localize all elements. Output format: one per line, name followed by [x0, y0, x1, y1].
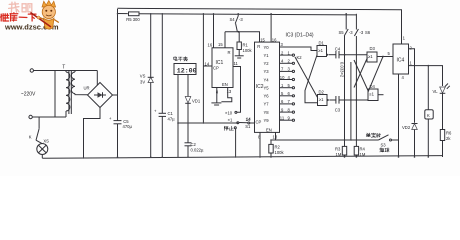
- svg-text:Y4: Y4: [264, 77, 270, 82]
- gate D3: [367, 46, 377, 62]
- svg-text:16: 16: [208, 43, 213, 48]
- svg-text:Y5: Y5: [264, 86, 270, 91]
- resistor R2: [269, 140, 285, 157]
- svg-text:UR: UR: [84, 86, 90, 91]
- wire secondary top to bridge: [74, 71, 76, 73]
- svg-text:15: 15: [218, 42, 223, 47]
- svg-text:×10: ×10: [225, 110, 233, 115]
- svg-text:Y7: Y7: [264, 102, 270, 107]
- switch S6: [354, 14, 370, 147]
- wire C3 to D4: [339, 99, 368, 101]
- resistor R4: [354, 146, 366, 157]
- svg-text:12:00: 12:00: [177, 67, 197, 74]
- wire bridge right vertex: [113, 94, 118, 96]
- gate D1: [317, 40, 329, 56]
- svg-text:R3: R3: [335, 147, 341, 152]
- transformer T: [62, 65, 75, 115]
- svg-text:11: 11: [234, 61, 239, 66]
- svg-text:×1: ×1: [228, 117, 233, 122]
- svg-text:Y6: Y6: [264, 94, 270, 99]
- svg-text:≥1: ≥1: [368, 54, 373, 59]
- selector S1 contacts: [224, 110, 254, 157]
- bridge rectifier UR: [84, 83, 113, 108]
- wire D1 feedback cross: [305, 55, 318, 103]
- wire IC2 pin16 to rail: [270, 14, 272, 42]
- switch S5: [339, 14, 354, 147]
- svg-text:R: R: [257, 44, 260, 49]
- svg-text:C2: C2: [191, 142, 197, 147]
- wire D3 out to IC4: [377, 56, 393, 58]
- resistor R1: [235, 32, 253, 58]
- wire bridge bottom vertex to ground rail: [84, 108, 101, 158]
- svg-text:Y9: Y9: [264, 118, 270, 123]
- wire clock left pin: [177, 75, 179, 158]
- wire C4 to D3: [339, 54, 367, 56]
- svg-text:D3: D3: [370, 46, 376, 51]
- wire Y0 to D1: [280, 47, 318, 51]
- wire IC2 pin13 stub: [275, 132, 277, 140]
- svg-text:1M: 1M: [336, 152, 342, 157]
- svg-text:C4: C4: [335, 46, 341, 51]
- ground IC1 pin8: [211, 88, 221, 106]
- terminal upper: [30, 69, 33, 72]
- svg-text:R5 300: R5 300: [126, 17, 140, 22]
- svg-text:K: K: [29, 134, 32, 139]
- relay coil K: [425, 66, 433, 157]
- electronic clock box: [174, 57, 197, 75]
- wire EN net: [271, 139, 378, 141]
- resistor R3: [335, 146, 347, 157]
- svg-text:T: T: [62, 65, 65, 71]
- svg-text:K2: K2: [297, 55, 303, 60]
- wire IC1 pin15 to reset: [224, 32, 226, 48]
- wire primary bottom: [32, 116, 66, 118]
- IC2 outputs Y0-Y9: [264, 42, 291, 123]
- svg-text:IC4: IC4: [397, 58, 405, 64]
- IC4: [393, 36, 413, 81]
- svg-text:CP: CP: [256, 120, 262, 125]
- svg-text:100k: 100k: [243, 48, 253, 53]
- svg-text:VD2: VD2: [402, 125, 411, 130]
- watermark: [1, 1, 59, 32]
- svg-text:≥1: ≥1: [369, 92, 374, 97]
- svg-text:≥1: ≥1: [318, 48, 323, 53]
- terminal lower: [29, 115, 32, 118]
- svg-text:100k: 100k: [275, 150, 285, 155]
- wire IC4 pin1 net: [409, 66, 443, 86]
- svg-text:14: 14: [246, 117, 251, 122]
- svg-text:EN: EN: [222, 82, 228, 87]
- resistor R5: [126, 12, 140, 22]
- svg-text:D1: D1: [319, 40, 325, 45]
- svg-text:C5: C5: [123, 119, 129, 124]
- svg-text:R2: R2: [275, 145, 281, 150]
- svg-text:R6: R6: [446, 131, 452, 136]
- wire D3 D4 cross: [354, 58, 368, 91]
- svg-text:S1: S1: [245, 124, 251, 129]
- gate D4: [368, 84, 378, 101]
- wire rail drop x203: [202, 14, 204, 123]
- svg-text:47µ: 47µ: [168, 117, 176, 122]
- svg-text:0.022µ: 0.022µ: [191, 148, 204, 153]
- IC1 counter: [205, 42, 239, 94]
- svg-text:-3: -3: [349, 30, 353, 35]
- svg-text:R4: R4: [360, 147, 366, 152]
- ground rail bottom: [42, 156, 442, 159]
- wire IC1 CP stub: [203, 65, 212, 67]
- wire clock right pin: [187, 75, 189, 97]
- IC2 counter: [246, 37, 280, 139]
- svg-text:Y8: Y8: [264, 110, 270, 115]
- svg-text:VS: VS: [140, 74, 146, 79]
- wire IC1 pin16 to rail: [213, 14, 215, 48]
- svg-text:K: K: [427, 113, 430, 118]
- wire top rail B cont: [139, 14, 356, 15]
- svg-text:Y0: Y0: [264, 45, 270, 50]
- wire loop vertical x351: [350, 62, 352, 140]
- zener VS: [140, 14, 154, 157]
- svg-text:IC3 (D1–D4): IC3 (D1–D4): [286, 33, 314, 39]
- capacitor C1: [154, 14, 175, 157]
- svg-text:EN: EN: [266, 128, 272, 133]
- wire reset net: [225, 32, 260, 42]
- capacitor C5: [109, 116, 132, 157]
- capacitor C4: [329, 46, 341, 58]
- switch S4: [230, 14, 244, 33]
- svg-text:3V: 3V: [140, 80, 145, 85]
- wire IC1 pin11 to x10 contact: [233, 67, 241, 113]
- wire IC1 pin13 stub: [221, 88, 231, 102]
- svg-text:XS: XS: [43, 138, 49, 143]
- svg-text:16: 16: [272, 37, 277, 42]
- svg-text:Y3: Y3: [264, 69, 270, 74]
- svg-text:CP: CP: [213, 66, 219, 71]
- wire IC4 pin2 to VD2 line: [409, 49, 415, 123]
- LED VL: [433, 84, 450, 130]
- svg-text:Y2: Y2: [264, 61, 270, 66]
- selector K2 contacts: [280, 54, 303, 121]
- svg-text:VD1: VD1: [192, 99, 201, 104]
- wire top rail A: [118, 8, 402, 44]
- switch K: [29, 117, 43, 144]
- svg-text:R1: R1: [243, 43, 249, 48]
- svg-text:470µ: 470µ: [123, 124, 133, 129]
- switch S3: [366, 133, 398, 152]
- svg-text:S4: S4: [230, 17, 236, 22]
- wire DC+ vertical: [117, 9, 119, 121]
- capacitor C3: [330, 96, 341, 113]
- diode VD2: [402, 124, 418, 158]
- svg-text:VL: VL: [433, 89, 439, 94]
- lamp socket XS: [37, 138, 49, 158]
- svg-text:D2: D2: [319, 89, 325, 94]
- svg-text:S3: S3: [381, 143, 387, 148]
- resistor R6: [440, 130, 452, 158]
- wire IC4 pin4 down: [398, 74, 400, 157]
- wire primary top: [34, 70, 98, 72]
- svg-text:0.033×2: 0.033×2: [339, 62, 344, 78]
- wire CP feed horizontal: [178, 122, 238, 124]
- svg-text:S6: S6: [365, 30, 371, 35]
- svg-text:15: 15: [260, 37, 265, 42]
- svg-text:C3: C3: [335, 108, 341, 113]
- svg-text:≥1: ≥1: [319, 97, 324, 102]
- svg-text:R: R: [228, 50, 231, 55]
- svg-text:1M: 1M: [360, 152, 366, 157]
- wire top rail B: [118, 13, 129, 15]
- capacitor C2: [185, 123, 204, 157]
- wire IC2 pin8 to ground: [259, 132, 261, 157]
- svg-text:C1: C1: [168, 111, 174, 116]
- svg-text:S5: S5: [339, 30, 345, 35]
- svg-text:Y1: Y1: [264, 53, 270, 58]
- diode VD1: [185, 97, 201, 124]
- svg-text:~220V: ~220V: [21, 92, 36, 98]
- wire secondary bottom to bridge left vertex: [75, 94, 88, 95]
- wire K2 wiper to D2: [295, 57, 318, 98]
- gate D2: [318, 89, 330, 105]
